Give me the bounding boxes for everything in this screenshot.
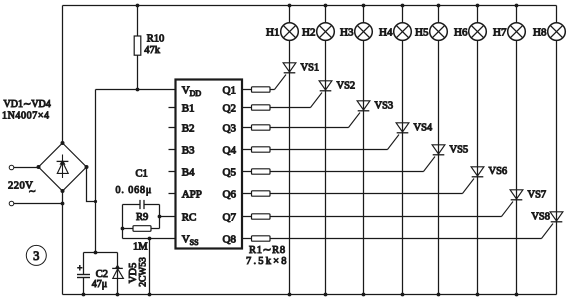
svg-text:47k: 47k [144,45,161,56]
svg-text:1N4007×4: 1N4007×4 [2,110,50,121]
svg-text:H5: H5 [415,26,429,38]
svg-text:B4: B4 [182,167,195,179]
svg-text:+: + [77,263,82,273]
svg-text:0. 068μ: 0. 068μ [116,185,153,196]
svg-text:H3: H3 [340,26,354,38]
svg-text:H6: H6 [454,26,468,38]
svg-text:Q3: Q3 [223,123,237,135]
svg-text:Q7: Q7 [223,212,237,224]
svg-text:B1: B1 [182,103,195,115]
svg-text:H4: H4 [379,26,393,38]
svg-text:VD5: VD5 [128,263,139,283]
svg-text:B3: B3 [182,145,195,157]
svg-text:VS3: VS3 [375,101,394,112]
svg-text:Q1: Q1 [223,85,236,97]
svg-text:7.5k×8: 7.5k×8 [246,256,289,267]
svg-text:R10: R10 [147,34,165,45]
svg-text:VD1∼VD4: VD1∼VD4 [4,99,51,110]
svg-text:R1∼R8: R1∼R8 [249,245,286,256]
svg-text:H7: H7 [493,26,507,38]
svg-text:Q8: Q8 [223,234,237,246]
svg-text:47μ: 47μ [92,279,107,290]
svg-text:3: 3 [33,249,39,263]
svg-text:VDD: VDD [182,85,202,99]
svg-text:Q2: Q2 [223,103,236,115]
svg-text:VS5: VS5 [450,145,469,156]
svg-text:APP: APP [182,189,202,201]
svg-text:Q4: Q4 [223,145,237,157]
svg-text:Q6: Q6 [223,189,237,201]
svg-text:VSS: VSS [182,234,199,248]
svg-text:VS2: VS2 [337,81,356,92]
svg-text:RC: RC [182,212,197,224]
svg-text:VS8: VS8 [531,212,550,223]
svg-text:VS1: VS1 [301,63,320,74]
svg-text:VS7: VS7 [528,190,547,201]
svg-text:H1: H1 [266,26,279,38]
svg-text:H8: H8 [533,26,547,38]
svg-text:2CW53: 2CW53 [138,257,148,287]
svg-text:R9: R9 [136,212,148,223]
svg-text:Q5: Q5 [223,167,237,179]
svg-text:VS4: VS4 [414,123,433,134]
svg-text:VS6: VS6 [489,166,508,177]
svg-text:∼: ∼ [29,186,37,196]
svg-text:H2: H2 [302,26,315,38]
svg-text:1M: 1M [133,241,148,252]
svg-text:B2: B2 [182,123,195,135]
svg-text:C1: C1 [136,169,148,180]
